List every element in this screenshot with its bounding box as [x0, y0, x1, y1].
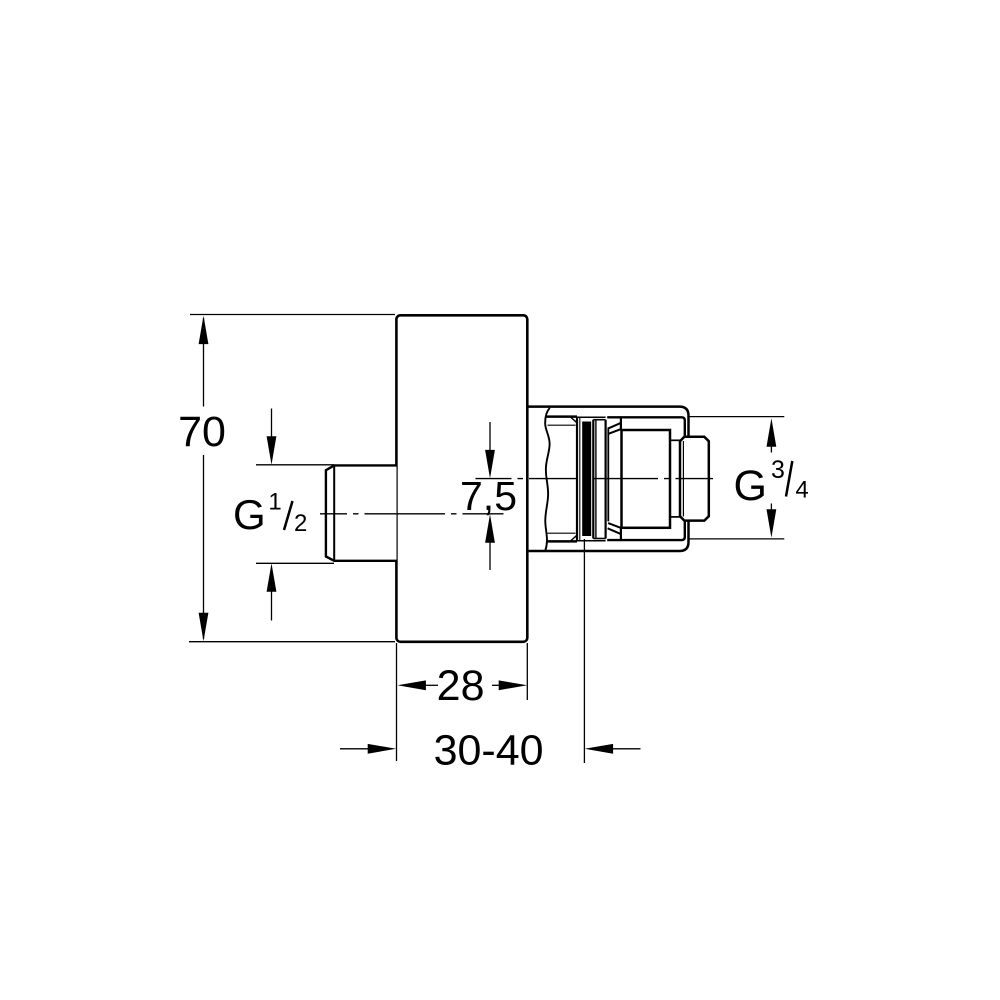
G 1/2 thread shoulder line	[333, 465, 335, 560]
dim G1/2 arrow bottom	[271, 588, 273, 621]
axis centerline G 3/4	[476, 478, 714, 480]
dim 30-40 right tail	[610, 748, 641, 750]
axis centerline G 1/2	[320, 513, 504, 515]
washer stack bottom cap	[577, 540, 606, 542]
wall flange plate	[396, 315, 527, 642]
dim 30-40 arrow left	[368, 744, 397, 754]
threaded pipe stub crest top	[546, 415, 577, 418]
seal washer left face	[576, 417, 578, 542]
dim 7,5 arrow upper	[489, 422, 491, 453]
dim G1/2 extension bottom	[256, 562, 334, 564]
thread root line	[682, 441, 684, 516]
collar left vertical top	[620, 417, 622, 429]
dim G1/2 extension top	[256, 464, 334, 466]
svg-text:G: G	[734, 462, 767, 510]
dim 28 extension right	[526, 643, 528, 700]
dim 28 line right tail	[492, 684, 502, 686]
slip washer right face	[604, 420, 606, 539]
svg-text:G: G	[233, 491, 266, 538]
pipe end chamfer top	[571, 417, 578, 423]
dim 7,5 arrow lower	[489, 540, 491, 571]
dim G3/4 extension top	[689, 416, 784, 418]
dim G1/2 arrow top	[271, 409, 273, 441]
G 3/4 male thread end	[680, 437, 709, 521]
dim G3/4 arrow up	[770, 443, 772, 453]
seal washer thin line	[579, 418, 581, 540]
svg-text:70: 70	[178, 408, 226, 456]
nut body	[622, 430, 671, 528]
dim 70 arrow up	[199, 316, 209, 345]
dim 30-40 extension right	[583, 539, 585, 763]
pipe thread root top	[548, 424, 576, 426]
gasket right face	[592, 420, 594, 539]
cone chamfer bottom outer	[608, 528, 621, 534]
washer bottom cap line	[593, 538, 605, 540]
collar left vertical bottom	[620, 528, 622, 540]
dim G3/4 arrow down	[770, 504, 772, 513]
dim 70 line	[203, 318, 205, 639]
neck top line	[670, 439, 680, 441]
G 1/2 male thread	[326, 465, 397, 560]
svg-text:30-40: 30-40	[434, 726, 544, 774]
escutcheon sleeve outline	[528, 407, 689, 551]
pipe end chamfer bottom	[571, 535, 578, 541]
threaded pipe stub crest bottom	[546, 540, 577, 543]
gasket (dark seal ring)	[582, 422, 591, 537]
neck bottom line	[670, 516, 680, 518]
nut collar outline	[607, 417, 685, 540]
dim 28 arrow left	[397, 680, 426, 690]
dim 28 arrow right	[499, 680, 528, 690]
svg-text:28: 28	[437, 662, 485, 710]
slip washer left face	[595, 420, 597, 539]
washer stack top cap	[577, 416, 606, 418]
svg-text:1: 1	[268, 489, 281, 516]
dim 28 extension left	[396, 643, 398, 761]
washer top cap line	[593, 419, 605, 421]
dim 30-40 left tail	[340, 748, 371, 750]
break wavy line	[545, 408, 550, 551]
dim 70 extension line top	[190, 314, 395, 316]
cone chamfer top outer	[608, 423, 621, 429]
svg-text:7,5: 7,5	[460, 473, 517, 519]
collar face vertical	[607, 429, 609, 522]
svg-text:4: 4	[795, 477, 808, 504]
dim 70 extension line bottom	[189, 641, 395, 643]
dim 28 line left tail	[423, 684, 438, 686]
dim 30-40 arrow right	[585, 744, 614, 754]
pipe thread root bottom	[548, 532, 576, 534]
svg-text:3: 3	[771, 456, 785, 484]
dim 70 arrow down	[199, 613, 209, 642]
dim G3/4 extension bottom	[689, 538, 784, 540]
cone chamfer bottom inner	[608, 523, 621, 528]
cone chamfer top inner	[608, 429, 621, 434]
svg-text:2: 2	[294, 510, 307, 537]
